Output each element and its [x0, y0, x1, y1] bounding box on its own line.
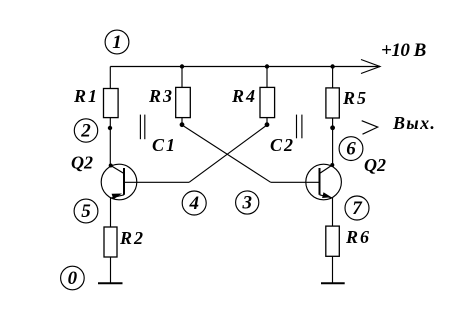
power rail +10V wire	[110, 66, 380, 68]
svg-text:7: 7	[352, 198, 363, 219]
junction dot R3 top	[180, 64, 184, 68]
junction dot node 6	[330, 125, 335, 130]
ground left	[98, 282, 123, 284]
svg-text:0: 0	[68, 268, 78, 289]
svg-text:5: 5	[81, 201, 91, 222]
svg-text:Q2: Q2	[71, 153, 93, 173]
svg-text:6: 6	[346, 139, 356, 160]
wire R3 bottom stub	[181, 118, 183, 125]
resistor R5	[326, 88, 368, 118]
resistor R2	[104, 227, 145, 257]
resistor R6	[326, 226, 371, 256]
wire emitter to R2	[110, 198, 112, 227]
svg-text:R1: R1	[73, 86, 99, 106]
wire R4 bottom stub	[266, 118, 268, 125]
svg-text:4: 4	[188, 193, 199, 214]
node 2	[74, 119, 97, 142]
node 0	[61, 266, 85, 290]
svg-text:+10 В: +10 В	[381, 40, 426, 61]
resistor R4	[231, 86, 275, 118]
+10 V label	[381, 40, 426, 61]
svg-text:3: 3	[241, 193, 252, 214]
output label Vyh	[392, 113, 436, 133]
wire rail to R5	[332, 67, 334, 88]
wire rail to R4	[266, 67, 268, 88]
junction dot R5 top	[330, 64, 334, 68]
wire rail to R1	[109, 67, 111, 89]
capacitor C2	[270, 115, 302, 155]
svg-text:C1: C1	[152, 135, 177, 155]
resistor R3	[148, 86, 190, 118]
node 7	[345, 196, 369, 220]
wire right base	[271, 181, 320, 183]
wire emitter to R6	[332, 198, 334, 226]
junction dot R4 bottom	[265, 122, 270, 127]
svg-text:C2: C2	[270, 135, 295, 155]
svg-text:R2: R2	[119, 228, 145, 248]
capacitor C1	[140, 115, 177, 155]
power rail arrowhead	[361, 60, 380, 74]
ground right	[321, 282, 345, 284]
wire left base	[124, 181, 189, 183]
svg-text:Q2: Q2	[364, 155, 386, 175]
output chevron	[362, 121, 378, 135]
wire R6 to ground	[332, 256, 334, 283]
wire cross-coupling R3 to right base	[182, 125, 271, 182]
node 6	[339, 137, 363, 161]
transistor Q2 left	[71, 153, 137, 200]
svg-text:2: 2	[80, 121, 91, 142]
node 3	[236, 191, 259, 214]
svg-text:1: 1	[112, 32, 122, 53]
wire R1 to collector	[109, 118, 111, 166]
junction dot R4 top	[265, 64, 269, 68]
resistor R1	[73, 86, 118, 118]
wire cross-coupling R4 to left base	[189, 125, 267, 182]
svg-text:R4: R4	[231, 86, 257, 106]
node 5	[74, 199, 98, 223]
junction node 2 dot	[108, 126, 112, 130]
svg-text:R6: R6	[345, 227, 371, 247]
wire rail to R3	[181, 67, 183, 88]
transistor Q2 right	[306, 155, 386, 200]
junction dot R3 bottom	[180, 122, 185, 127]
wire R5 to collector	[332, 118, 334, 165]
svg-text:R3: R3	[148, 86, 174, 106]
svg-text:Вых.: Вых.	[392, 113, 436, 133]
wire R2 to ground	[110, 257, 112, 283]
node 1	[105, 30, 129, 54]
node 4	[182, 191, 206, 215]
svg-text:R5: R5	[342, 88, 368, 108]
